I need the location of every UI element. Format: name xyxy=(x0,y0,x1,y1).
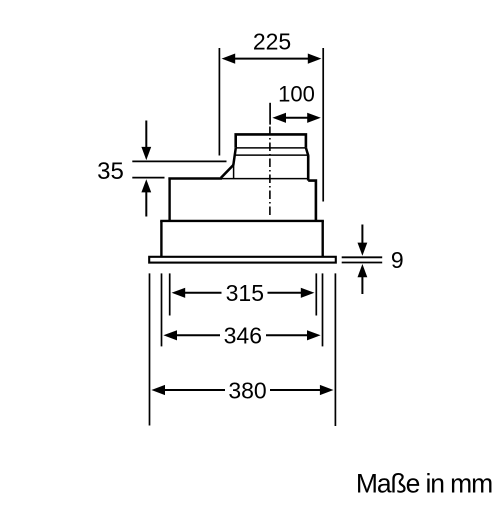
svg-text:9: 9 xyxy=(391,247,404,273)
tier-3 left edge xyxy=(160,221,162,256)
flare right (outline) xyxy=(307,155,310,181)
svg-text:225: 225 xyxy=(253,29,291,55)
svg-text:346: 346 xyxy=(224,323,262,349)
tier-3 right edge xyxy=(322,221,324,256)
bottom flange plate xyxy=(149,257,336,263)
tier-2 top left (thick) xyxy=(168,177,222,179)
sloped transition (left) xyxy=(221,165,234,178)
svg-text:380: 380 xyxy=(228,377,266,403)
svg-text:100: 100 xyxy=(278,82,315,107)
kinks xyxy=(233,148,236,165)
flare left (interior, thin) xyxy=(233,164,235,178)
full-width step line xyxy=(160,220,324,222)
svg-text:315: 315 xyxy=(226,280,264,306)
right inner step xyxy=(308,181,316,221)
tier-2 left edge xyxy=(168,178,170,221)
svg-text:Maße in mm: Maße in mm xyxy=(356,469,492,499)
collar seam 1 xyxy=(236,147,306,149)
svg-text:35: 35 xyxy=(97,158,124,185)
collar seam 2 xyxy=(234,154,308,156)
tier-2 top under flare (thin) xyxy=(222,178,308,180)
duct collar xyxy=(236,134,306,147)
